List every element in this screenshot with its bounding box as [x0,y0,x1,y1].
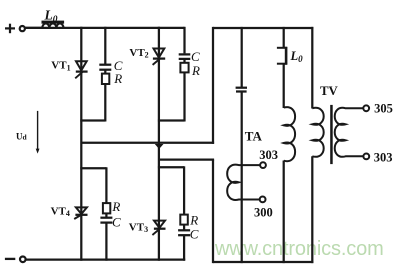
snubber 2: wire from rail corner down [183,27,185,54]
svg-text:R: R [189,212,198,227]
wire snubber2 bottom stub [158,119,185,121]
thyristor VT3 [152,221,165,235]
svg-text:R: R [111,199,120,214]
transformer TV core [330,105,333,164]
wire commutating-capacitor leg lower [241,92,243,264]
wire L0 to load coil [283,64,285,108]
svg-text:VT1: VT1 [51,60,70,73]
inductor L0 (input filter choke) [42,21,65,28]
svg-text:R: R [191,63,200,78]
svg-text:C: C [112,214,121,229]
wire snubber1 bottom stub [80,119,105,121]
svg-text:Ud: Ud [16,131,28,141]
capacitor C (commutating) [236,88,247,92]
wire VT2/VT3 bridge leg [158,27,160,261]
wire right loop bottom rail [213,261,313,263]
resistor R (VT4 snubber) [103,203,110,213]
svg-text:L0: L0 [44,8,58,25]
wire right loop left vertical lower [212,160,214,264]
svg-text:L0: L0 [290,49,304,64]
resistor R (VT2 snubber) [180,63,188,73]
wire load coil to bottom rail [283,161,285,264]
capacitor C (VT1 snubber) [99,65,111,70]
svg-text:TA: TA [245,129,263,144]
wire snubber3 lower [183,235,185,261]
current transformer TA secondary winding [227,165,263,200]
wire resistor to bottom stub [104,84,106,122]
wire from + terminal to top rail [25,27,42,29]
svg-text:C: C [190,226,199,241]
svg-text:305: 305 [374,102,393,116]
snubber 1: wire from rail to capacitor [104,27,106,65]
wire bottom-left rail [26,258,185,260]
watermark www.cntronics.com [215,238,384,261]
wire snubber4 lower [105,223,107,261]
wire snubber4 top stub [80,167,106,169]
wire VT1/VT4 bridge leg [80,27,82,261]
output terminal circle (-) [20,257,26,263]
svg-text:VT3: VT3 [129,221,148,234]
wire resistor to capacitor [105,213,107,217]
wire bridge output M2 [159,158,214,160]
wire resistor to capacitor [183,225,185,231]
thyristor VT4 [74,207,87,219]
terminal circle 303 (TA) [260,162,266,168]
wire resistor to bottom stub [183,72,185,121]
input terminal circle (+) [20,26,25,31]
wire commutating-capacitor leg upper [241,27,243,88]
resistor R (VT1 snubber) [102,74,109,84]
svg-text:TV: TV [320,84,339,98]
wire bridge output M1 [81,142,214,144]
svg-text:303: 303 [374,150,393,164]
terminal circle 303 (TV) [363,154,369,160]
wire load leg upper [283,27,285,48]
thyristor VT2 [153,49,166,65]
wire TV primary leg lower [311,156,313,263]
transformer TV primary winding [312,108,323,157]
wire top-left rail [25,27,184,29]
svg-text:VT4: VT4 [51,205,70,218]
Ud arrow [36,111,40,154]
wire right loop top rail [213,27,313,29]
wire snubber4 upper [105,167,107,203]
svg-text:303: 303 [259,148,278,162]
junction arrow at VT2 leg [155,144,164,149]
svg-text:C: C [191,49,200,64]
resistor R (VT3 snubber) [180,215,188,225]
capacitor C (VT3 snubber) [178,230,190,235]
plus terminal [5,24,15,34]
wire snubber3 upper [183,166,185,214]
minus terminal [5,258,15,260]
thyristor VT1 [75,61,87,78]
svg-text:VT2: VT2 [129,47,148,60]
load induction coil [284,107,295,161]
transformer TV secondary winding [335,108,364,157]
wire TV primary leg upper [311,27,313,109]
inductor L0 (load-side choke) [277,47,287,65]
wire right loop left vertical upper [212,27,214,144]
capacitor C (VT2 snubber) [179,54,191,59]
svg-text:300: 300 [254,205,273,219]
terminal circle 305 [363,105,369,111]
capacitor C (VT4 snubber) [100,218,112,223]
wire cap to resistor [183,59,185,63]
svg-text:R: R [113,71,122,86]
wire snubber3 top stub [158,166,184,168]
terminal circle 300 (TA) [260,197,266,203]
wire cap to resistor [104,70,106,74]
